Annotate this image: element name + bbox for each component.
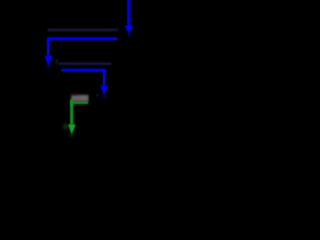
faint bond line (navy remnant) middle [59, 62, 112, 65]
faint bond line (navy remnant) upper [48, 29, 116, 31]
green arrow shaft over label [70, 99, 73, 105]
faint green haze left of green arrowhead [64, 123, 68, 129]
arrow A3 (blue, elbow: left-to-right then down, points down) [65, 70, 105, 85]
charge mark (dark red remnant above Cl) [72, 93, 77, 95]
faint navy dot (remnant right of Cl) [96, 94, 98, 96]
arrow A2 (blue, elbow: right-to-left then down, points down) [48, 39, 114, 56]
arrow A1 (blue, top vertical, points down) [127, 0, 130, 27]
arrow G1 (green, elbow under Cl label, points down) [72, 103, 89, 125]
label Cl (blurred gray text remnant) [71, 95, 88, 102]
